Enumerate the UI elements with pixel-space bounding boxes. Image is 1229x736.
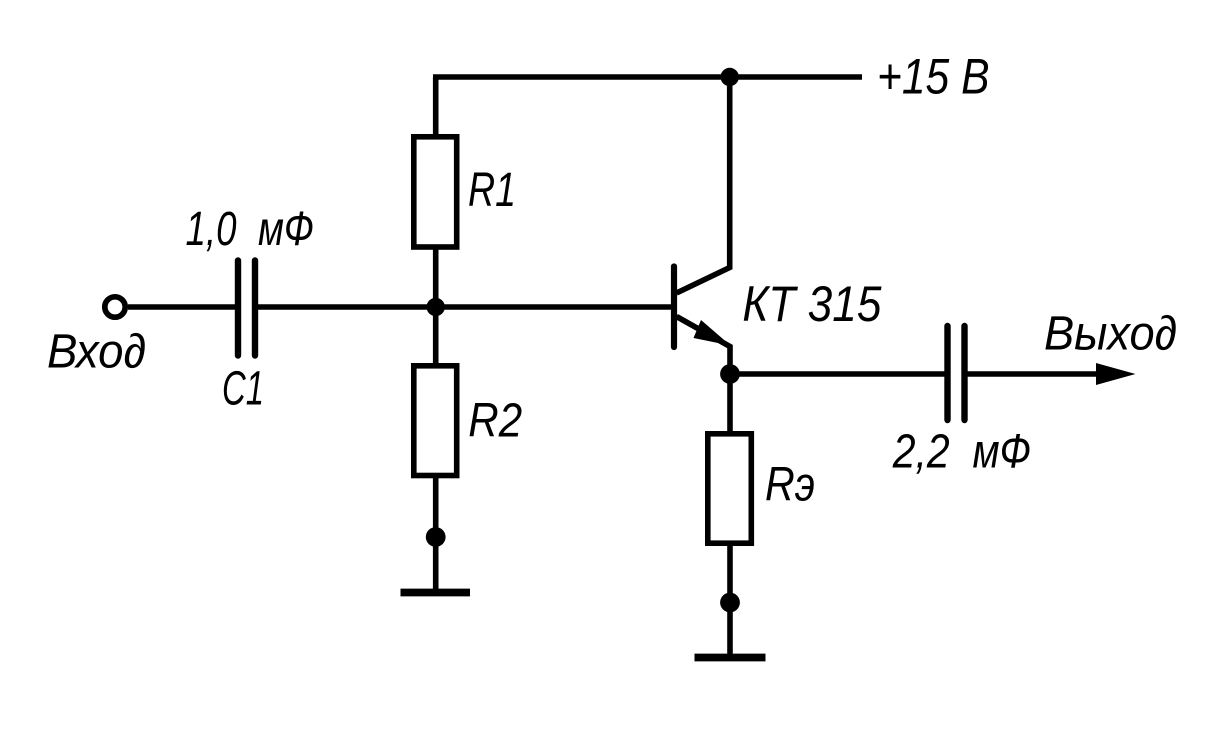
junction: base node (R1/R2 divider) xyxy=(427,298,445,316)
ground bar 2 xyxy=(695,654,766,662)
wire: R2 top lead xyxy=(433,307,439,368)
junction: R2 ground node xyxy=(426,527,446,547)
svg-text:С1: С1 xyxy=(222,362,264,415)
wire: input to C1 left plate xyxy=(128,304,235,310)
capacitor C2 left plate xyxy=(944,326,950,420)
svg-text:R1: R1 xyxy=(468,164,516,217)
svg-text:+15 В: +15 В xyxy=(877,49,990,105)
svg-text:КТ 315: КТ 315 xyxy=(742,276,881,332)
wire: R1 top lead xyxy=(433,77,439,140)
input terminal circle xyxy=(105,297,125,317)
svg-text:R2: R2 xyxy=(468,395,522,448)
wire: Rэ top lead xyxy=(727,374,733,436)
wire: +15V top rail xyxy=(433,74,862,80)
wire: emitter node to C2 left plate xyxy=(730,371,945,377)
resistor R1 xyxy=(414,137,457,247)
svg-text:Вхо∂: Вхо∂ xyxy=(47,326,146,379)
svg-text:2,2: 2,2 xyxy=(892,426,950,479)
ground bar 1 xyxy=(401,589,471,597)
svg-text:мФ: мФ xyxy=(258,203,314,256)
transistor Q1 base bar xyxy=(671,267,677,348)
svg-text:мФ: мФ xyxy=(973,426,1032,479)
output arrowhead xyxy=(1096,363,1136,385)
wire: node to ground 1 xyxy=(433,537,439,592)
wire: R1 bottom lead xyxy=(433,245,439,307)
capacitor C1 right plate xyxy=(252,261,258,356)
svg-text:Выхо∂: Выхо∂ xyxy=(1044,308,1177,361)
capacitor C2 right plate xyxy=(961,326,967,420)
svg-text:Rэ: Rэ xyxy=(765,459,815,512)
junction: collector node on +15V rail xyxy=(721,68,739,86)
wire: C2 right plate to output arrow xyxy=(968,371,1101,377)
wire: R2 bottom lead xyxy=(433,473,439,537)
capacitor C1 left plate xyxy=(235,261,241,356)
transistor Q1 emitter arrow xyxy=(694,320,731,346)
wire: node to ground 2 xyxy=(727,603,733,658)
svg-text:1,0: 1,0 xyxy=(186,203,237,256)
resistor Rэ xyxy=(708,434,752,543)
transistor Q1 collector lead xyxy=(677,77,730,293)
resistor R2 xyxy=(414,366,457,476)
wire: Rэ bottom lead xyxy=(727,541,733,603)
transistor Q1 emitter lead xyxy=(677,317,731,375)
junction: emitter output node xyxy=(720,364,740,384)
wire: C1 right plate to base xyxy=(258,304,672,310)
junction: Rэ ground node xyxy=(720,593,740,613)
